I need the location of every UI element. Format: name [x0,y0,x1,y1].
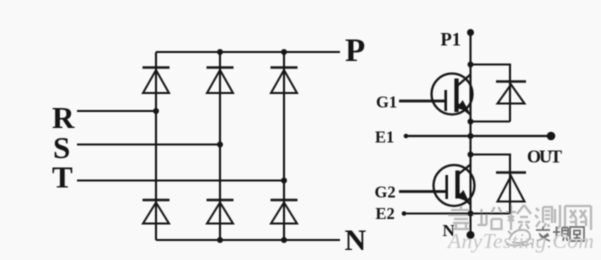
svg-text:P: P [345,33,365,69]
svg-text:E1: E1 [375,128,394,147]
svg-text:G1: G1 [376,93,397,112]
svg-text:N: N [345,224,367,257]
svg-text:OUT: OUT [527,147,562,167]
svg-text:E2: E2 [376,204,395,223]
svg-text:P1: P1 [441,31,462,51]
svg-text:G2: G2 [375,183,396,202]
svg-text:N: N [443,221,456,240]
svg-text:T: T [52,159,73,194]
